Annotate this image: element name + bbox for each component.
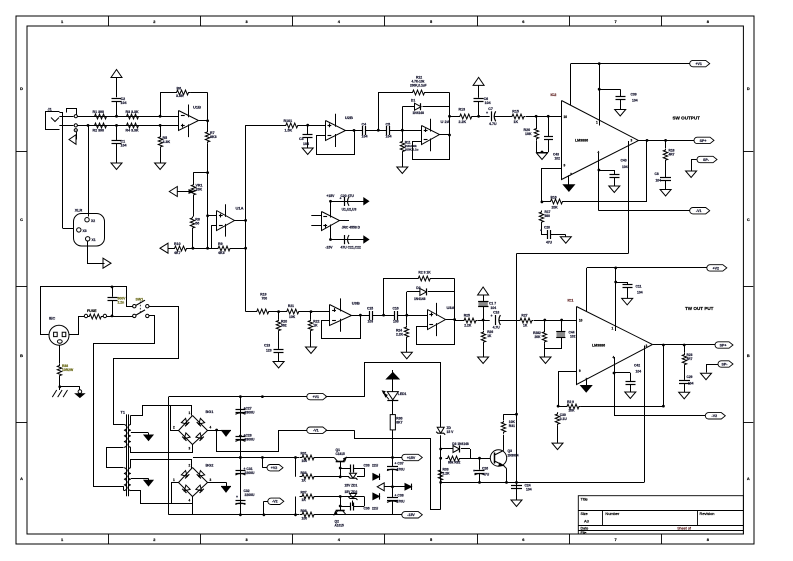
svg-text:SW OUTPUT: SW OUTPUT: [673, 116, 701, 121]
svg-text:+: +: [236, 495, 238, 499]
net arrow left of R10: [160, 243, 168, 253]
wire IC1 vcc rail: [587, 267, 707, 312]
svg-text:4: 4: [210, 426, 212, 430]
wire IC1 pin3 mute: [644, 346, 646, 483]
svg-text:15V ZD2: 15V ZD2: [345, 490, 358, 494]
resistor R5: [158, 125, 170, 162]
net arrow XLR out: [103, 258, 111, 268]
svg-text:U3B: U3B: [352, 301, 360, 306]
svg-text:R2 390: R2 390: [93, 129, 105, 133]
wire mute horizontal top: [517, 253, 629, 255]
svg-text:3.3K: 3.3K: [176, 94, 184, 98]
svg-text:1: 1: [612, 327, 614, 331]
ground at BG1 output: [208, 431, 232, 437]
power flag +V1: [307, 393, 327, 399]
svg-text:10: 10: [564, 115, 568, 119]
wire Q2 base: [339, 495, 342, 511]
net arrow at VR1 wiper: [169, 187, 177, 197]
svg-text:104: 104: [637, 291, 643, 295]
svg-text:680: 680: [545, 214, 551, 218]
capacitor C42: [614, 364, 641, 392]
capacitor C39: [599, 89, 638, 109]
power flag -V1 right: [690, 208, 710, 214]
svg-text:U1A: U1A: [236, 206, 244, 211]
wire to Q3 base: [470, 449, 490, 460]
wire Q1 base: [339, 462, 342, 479]
svg-text:-V2: -V2: [272, 500, 278, 504]
svg-text:10R2W: 10R2W: [62, 368, 74, 372]
svg-text:2.2K: 2.2K: [443, 472, 451, 476]
ground under C13: [273, 362, 284, 369]
resistor R36: [300, 509, 317, 521]
svg-text:R27: R27: [521, 314, 527, 318]
svg-text:R1 390: R1 390: [93, 110, 105, 114]
resistor R15: [511, 110, 562, 125]
wire reg node: [340, 468, 364, 477]
wire mid bus: [193, 456, 334, 459]
ground under C3: [302, 148, 313, 155]
svg-text:+15V: +15V: [326, 194, 335, 198]
wire XLR X1 out: [88, 241, 105, 264]
power flag +V1 top right: [690, 60, 710, 66]
wire secondary W2 top to BG2: [131, 460, 192, 469]
svg-text:2: 2: [173, 426, 175, 430]
ground under SP- SW: [686, 171, 697, 178]
wire U1A output: [234, 219, 247, 222]
wire switch upper to transformer: [114, 307, 179, 425]
net arrow right bottom: [364, 236, 369, 243]
svg-text:D2: D2: [416, 286, 420, 290]
capacitor C5: [377, 123, 402, 139]
wire BG1 to -V1: [215, 429, 306, 452]
wire secondary W1 tap: [131, 432, 149, 434]
svg-text:470U: 470U: [397, 468, 406, 472]
svg-text:C20 47U: C20 47U: [341, 194, 355, 198]
resistor R21tw: [285, 304, 330, 319]
resistor R30b: [555, 413, 567, 443]
svg-text:X2: X2: [91, 219, 95, 223]
op-amp IC1 LM3886: [568, 299, 653, 385]
power flag SP- SW: [692, 156, 718, 170]
text TW OUT PUT: [685, 306, 714, 311]
ground under R5: [155, 163, 166, 170]
capacitor C37: [387, 458, 405, 487]
ground under C29: [679, 392, 690, 399]
ground right of C20: [560, 237, 571, 244]
svg-text:2: 2: [189, 464, 191, 468]
svg-text:1N4148: 1N4148: [414, 297, 426, 301]
svg-text:4R7: 4R7: [687, 357, 693, 361]
capacitor C6: [474, 97, 491, 116]
svg-text:C39: C39: [631, 93, 637, 97]
svg-text:4: 4: [189, 499, 191, 503]
wire IEC right to fuse: [69, 317, 85, 335]
wire to VR1: [193, 171, 209, 174]
wire +15V rail: [317, 456, 402, 459]
svg-text:104: 104: [303, 142, 309, 146]
svg-text:1K: 1K: [487, 334, 492, 338]
svg-text:C13: C13: [264, 344, 270, 348]
wire -15V rail: [317, 514, 402, 516]
ground under C40: [609, 186, 620, 193]
feedback box U3A: [417, 279, 457, 345]
feedback box U2B: [317, 129, 356, 155]
ground under C39: [615, 110, 626, 117]
capacitor C27: [235, 407, 255, 415]
svg-text:102: 102: [555, 157, 561, 161]
svg-text:104: 104: [121, 143, 127, 147]
capacitor C13: [264, 344, 284, 362]
svg-text:-15V: -15V: [325, 246, 333, 250]
resistor R101: [284, 119, 326, 133]
svg-text:C40: C40: [621, 159, 627, 163]
svg-text:56: 56: [195, 222, 199, 226]
power arrow above LED1: [387, 370, 400, 392]
svg-text:FUSE: FUSE: [87, 309, 97, 313]
svg-text:R101: R101: [284, 119, 293, 123]
power flag SP+ TW: [715, 342, 733, 348]
svg-text:103: 103: [393, 320, 399, 324]
svg-text:1K: 1K: [313, 324, 318, 328]
capacitor C1: [112, 125, 127, 162]
net arrow above C6: [473, 77, 484, 97]
power flag +V2 right: [707, 265, 727, 271]
diode D3: [441, 442, 470, 453]
svg-text:J1: J1: [48, 108, 52, 112]
resistor R3: [125, 110, 141, 119]
wire IC2 pin3 mute: [628, 141, 630, 254]
wire +V1 to mute box: [326, 363, 441, 428]
capacitor C3: [299, 125, 313, 148]
wire +V2 stub: [262, 458, 267, 468]
svg-text:JRC 4558 D: JRC 4558 D: [342, 226, 361, 230]
svg-text:+: +: [486, 111, 488, 115]
capacitor C33: [340, 464, 379, 473]
svg-text:R2 9: R2 9: [567, 400, 574, 404]
capacitor C15: [360, 307, 383, 324]
resistor R19tw: [255, 293, 286, 314]
svg-text:BG1: BG1: [206, 410, 214, 414]
svg-text:File: File: [581, 531, 587, 535]
svg-text:D: D: [20, 86, 23, 91]
svg-text:1: 1: [596, 121, 598, 125]
zener ZD1a: [345, 473, 358, 487]
svg-text:15V ZD1: 15V ZD1: [345, 483, 358, 487]
wire top signal line: [77, 116, 178, 118]
svg-text:C8: C8: [655, 172, 659, 176]
svg-text:104: 104: [386, 135, 392, 139]
svg-text:U 2A: U 2A: [441, 119, 450, 124]
wire IC1 pin9 feedback: [558, 371, 576, 406]
resistor R30 box style: [390, 400, 402, 458]
feedback box U3B: [322, 314, 362, 339]
op-amp supply note: [311, 205, 360, 238]
wire IC2 pin4 rail: [598, 153, 690, 211]
capacitor C11: [616, 282, 643, 298]
power flag +V2: [267, 465, 283, 471]
svg-text:SP+: SP+: [700, 139, 707, 143]
svg-text:-V1: -V1: [696, 209, 702, 213]
power flag SP+ SW: [694, 137, 714, 143]
svg-text:C1 7: C1 7: [489, 301, 496, 305]
svg-text:LED1: LED1: [398, 392, 407, 396]
svg-text:X1: X1: [92, 238, 96, 242]
wire -V2 stub: [264, 501, 268, 515]
wire IC2 output: [638, 139, 694, 142]
svg-text:C11: C11: [636, 285, 642, 289]
wire IC2 pin7 ground: [563, 175, 574, 191]
svg-text:4K3: 4K3: [218, 251, 225, 255]
wire mute left column: [439, 435, 442, 509]
svg-text:-V2: -V2: [712, 414, 718, 418]
svg-text:123: 123: [266, 349, 272, 353]
resistor R37: [294, 491, 340, 517]
svg-text:+V2: +V2: [713, 266, 719, 270]
capacitor C2: [112, 97, 127, 116]
svg-text:IC1: IC1: [568, 299, 574, 303]
svg-text:Size: Size: [581, 512, 588, 516]
svg-text:200K,0.1u: 200K,0.1u: [405, 148, 419, 152]
svg-text:+V1: +V1: [695, 62, 701, 66]
resistor R22tw: [308, 312, 319, 347]
power flag SP- TW: [707, 361, 734, 373]
svg-text:R25: R25: [464, 314, 470, 318]
svg-text:R31: R31: [301, 452, 307, 456]
resistor R1: [93, 110, 109, 119]
capacitor CX 2.2n: [108, 287, 127, 316]
svg-text:C36: C36: [364, 507, 370, 511]
svg-text:+: +: [540, 229, 542, 233]
svg-text:C29: C29: [687, 375, 693, 379]
svg-text:A: A: [20, 476, 23, 481]
svg-text:U1,U2,U3: U1,U2,U3: [342, 207, 357, 211]
svg-text:U2B: U2B: [345, 115, 353, 120]
wire mute bus: [441, 481, 645, 484]
svg-text:104: 104: [121, 101, 127, 105]
svg-text:T1: T1: [121, 411, 125, 415]
svg-text:2N3904: 2N3904: [508, 454, 519, 458]
capacitor C20: [540, 226, 566, 245]
svg-text:100: 100: [302, 459, 308, 463]
svg-text:A1015: A1015: [335, 524, 344, 528]
wire secondary W1 bottom to BG1: [131, 445, 193, 453]
svg-text:103: 103: [368, 320, 374, 324]
power flag -V1: [307, 427, 327, 433]
svg-text:C7: C7: [488, 107, 493, 111]
op-amp U3B: [330, 298, 360, 331]
svg-text:104: 104: [362, 135, 368, 139]
svg-text:+V2: +V2: [271, 466, 277, 470]
svg-text:SP-: SP-: [703, 158, 710, 162]
svg-text:8K3: 8K3: [210, 135, 217, 139]
svg-text:C18: C18: [493, 310, 499, 314]
svg-text:9: 9: [564, 164, 566, 168]
svg-text:1: 1: [173, 478, 175, 482]
wire IC1 output: [653, 344, 715, 347]
resistor R31: [300, 452, 317, 464]
svg-text:3: 3: [189, 447, 191, 451]
svg-text:B: B: [20, 353, 23, 358]
svg-text:U1B: U1B: [193, 105, 201, 110]
svg-text:Number: Number: [605, 511, 620, 516]
wire mute vertical: [516, 254, 518, 492]
svg-text:4K7: 4K7: [174, 251, 181, 255]
wire R16 to output: [646, 139, 649, 202]
op-amp U2B: [326, 114, 354, 147]
bridge rectifier BG1: [173, 410, 213, 451]
resistor R28: [533, 320, 547, 353]
resistor R23: [417, 271, 433, 281]
svg-text:1N4148: 1N4148: [413, 111, 425, 115]
capacitor C36: [340, 497, 379, 511]
svg-text:R33: R33: [301, 471, 307, 475]
svg-text:C16: C16: [393, 307, 399, 311]
wire fuse to switch: [107, 315, 133, 318]
feedback box U2A: [413, 93, 451, 160]
svg-text:104: 104: [688, 382, 694, 386]
capacitor C17: [478, 301, 496, 320]
svg-text:C3: C3: [299, 137, 304, 141]
wire IC1 pin1: [614, 268, 617, 331]
feedback wire U1B: [160, 93, 208, 122]
svg-text:A: A: [747, 476, 750, 481]
switch SW1 upper pole: [133, 298, 149, 308]
ground at BG2 output: [208, 482, 232, 492]
resistor R32: [446, 456, 471, 464]
supply note bottom wire: [325, 235, 363, 250]
wire jack sleeve to XLR: [59, 112, 74, 229]
ground under C42: [625, 392, 636, 399]
svg-text:+: +: [491, 314, 493, 318]
XLR pin X1: [86, 237, 96, 242]
wire PSU bottom rail: [169, 513, 393, 516]
power flag -V2: [268, 498, 284, 504]
diode D1: [402, 99, 449, 131]
svg-text:C15: C15: [367, 307, 373, 311]
svg-text:1K: 1K: [523, 324, 528, 328]
svg-text:Revision: Revision: [700, 511, 715, 516]
wire secondary W2 tap: [131, 478, 149, 480]
wire signal bus vertical: [245, 125, 247, 312]
capacitor C28: [235, 434, 255, 442]
svg-text:Title: Title: [581, 496, 588, 501]
svg-text:+15V: +15V: [407, 456, 416, 460]
svg-text:R10: R10: [174, 242, 181, 246]
wire IC1 pin7 ground: [581, 379, 592, 392]
text SW OUTPUT: [673, 116, 701, 121]
resistor R26: [481, 320, 493, 357]
svg-text:1.5K: 1.5K: [285, 129, 293, 133]
svg-text:562: 562: [281, 324, 287, 328]
wire IC2 pin9 feedback: [542, 168, 562, 202]
resistor R24: [396, 315, 409, 352]
wire reg node lower: [340, 496, 364, 498]
svg-text:+ C37: + C37: [395, 462, 404, 466]
svg-text:47U C21,C22: 47U C21,C22: [341, 246, 361, 250]
svg-text:1K: 1K: [302, 498, 307, 502]
capacitor C40: [599, 159, 628, 186]
wire mixer column: [192, 173, 210, 250]
svg-text:4.7U: 4.7U: [489, 122, 497, 126]
capacitor C24: [511, 484, 532, 500]
wire IC2 pin1: [598, 64, 601, 126]
transistor Q3: [490, 435, 518, 483]
resistor R18: [663, 140, 674, 177]
svg-text:R21: R21: [288, 304, 294, 308]
svg-text:47U: 47U: [483, 473, 490, 477]
svg-text:9: 9: [579, 369, 581, 373]
svg-text:102: 102: [570, 335, 576, 339]
feedback wire R12 top: [378, 92, 449, 130]
resistor R10: [168, 242, 216, 255]
op-amp U3A: [428, 303, 455, 336]
svg-text:22U: 22U: [372, 507, 379, 511]
wire BG2 bottom to rail: [192, 504, 194, 515]
svg-text:A3: A3: [584, 519, 590, 524]
ground W2 center tap: [144, 478, 153, 485]
svg-text:SW1: SW1: [136, 298, 144, 302]
svg-text:IC2: IC2: [551, 93, 557, 97]
svg-text:2.2K: 2.2K: [464, 324, 472, 328]
svg-text:104: 104: [526, 488, 532, 492]
wire +V1 top rail: [169, 395, 307, 398]
node dots input lines: [76, 115, 162, 131]
svg-text:1K: 1K: [514, 120, 519, 124]
op-amp U1B: [179, 105, 202, 138]
title block: [578, 496, 743, 535]
svg-text:4R7: 4R7: [669, 153, 675, 157]
wire bottom line to XLR X2: [88, 125, 90, 216]
ground under R30b: [552, 443, 563, 450]
resistor R9: [216, 242, 248, 255]
resistor R8: [190, 198, 200, 248]
capacitor C44 gray: [545, 320, 576, 349]
svg-text:2.2K: 2.2K: [459, 120, 467, 124]
capacitor C18 4.7U: [491, 310, 520, 329]
transistor Q1: [334, 448, 346, 462]
svg-text:1K: 1K: [302, 478, 307, 482]
capacitor C4: [362, 123, 379, 139]
svg-text:7: 7: [615, 537, 617, 542]
svg-text:R16: R16: [551, 196, 557, 200]
svg-text:C26: C26: [482, 467, 488, 471]
net arrow jack sleeve: [69, 132, 77, 144]
wire feedback to output: [663, 345, 665, 406]
svg-text:Sheet of: Sheet of: [677, 526, 692, 530]
resistor R38: [57, 345, 74, 387]
supply note top wire: [326, 194, 363, 206]
net arrow right top: [364, 198, 369, 205]
op-amp IC2 LM3886: [551, 93, 639, 180]
svg-text:3300U: 3300U: [245, 438, 255, 442]
wire switch lower to transformer: [94, 316, 155, 487]
svg-text:104: 104: [622, 165, 628, 169]
ground under R28: [540, 353, 551, 364]
resistor R7: [205, 121, 216, 173]
resistor R12: [410, 76, 427, 95]
jack pin circles: [74, 115, 77, 132]
svg-text:20K: 20K: [535, 335, 542, 339]
resistor R20tw: [276, 312, 287, 349]
svg-text:C20: C20: [544, 226, 550, 230]
svg-text:B: B: [747, 353, 750, 358]
wire U2B out to C4: [354, 130, 363, 132]
connector IEC inlet: [49, 317, 69, 346]
svg-text:R2 3 1K: R2 3 1K: [418, 271, 431, 275]
svg-text:U3A: U3A: [447, 305, 455, 310]
svg-text:10K: 10K: [525, 132, 532, 136]
resistor R4: [125, 123, 141, 133]
